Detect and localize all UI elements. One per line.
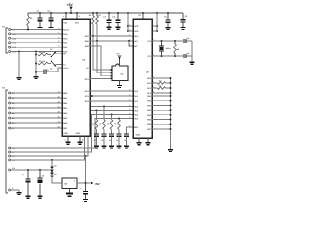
svg-text:B3: B3 [12,107,14,110]
ground below C10 [83,199,88,200]
wire K2 pin to U5 bus line 3 [11,111,133,157]
ground below C9 [38,196,43,197]
wire U3 RB6 to U5 (y=41) [90,40,133,42]
ground at x=36 [34,76,39,77]
wire U3 RC5 to U5 (y=96) [90,95,133,97]
ground below C11 [94,145,99,146]
wire stub to U5 pin AVDD [128,30,133,32]
capacitor C7 series [43,70,44,74]
ground below U5 stub1 [137,142,142,143]
svg-text:C7: C7 [47,69,49,72]
wire K1-2 to U3 PGD [11,33,62,35]
diode D4 [51,171,53,172]
svg-text:SDA: SDA [134,35,139,38]
svg-text:9: 9 [129,125,130,128]
IC U4 body [112,64,128,80]
wire x=93 down to U4 pin1 [93,36,110,70]
ground below C8 [26,196,31,197]
wire U3 RC6 to U5 (y=101) [90,100,133,102]
wire K2 pin to U5 bus line 2 [11,115,133,153]
bus vertical line with junctions [170,78,172,149]
wire +5V drop to regulator output node [85,156,87,183]
ground below C15 [124,145,129,146]
ground below C14 [117,145,122,146]
capacitor C4 [117,13,119,20]
svg-text:9: 9 [129,34,130,37]
wire tap column 1 [96,110,98,112]
svg-text:B0: B0 [12,92,14,95]
connector K2 body bracket [6,90,8,193]
svg-text:7: 7 [58,49,59,52]
capacitor C16 [183,39,184,43]
diode D3 [51,166,53,167]
wire GP1 stub [152,82,158,84]
U5 top VCC stub, pin 20 [142,13,144,19]
wire C11 to ground [96,137,98,146]
svg-text:19: 19 [82,138,84,141]
svg-text:27: 27 [58,121,60,124]
wire C16 to gnd node [187,40,192,42]
wire gnd drop x=19 [18,52,20,78]
svg-text:GND: GND [63,132,68,135]
ground below U3 stub2 [78,142,83,143]
resistor R5 [38,62,48,65]
svg-text:PGD: PGD [63,33,68,36]
svg-text:1k: 1k [107,123,109,126]
connector K2 pins lower [9,147,11,149]
ground below C3 [107,27,112,28]
wire tap column 3 [111,114,113,116]
wire tap column 2 [103,106,105,108]
svg-text:25: 25 [58,111,60,114]
svg-text:B6: B6 [12,122,14,125]
IC U5 bottom ground stub 1 [138,138,140,142]
ground below U5 stub2 [146,142,151,143]
wire K2 ground pin [11,189,19,191]
svg-text:5: 5 [58,40,59,43]
svg-text:20: 20 [138,14,140,17]
svg-text:1k: 1k [99,123,101,126]
wire +5V to rail [70,10,72,13]
IC U5 bottom ground stub 2 [147,138,149,142]
connector K2 pins upper [9,92,11,94]
capacitor C17 [183,54,184,58]
svg-text:VCAP: VCAP [63,67,69,70]
ground below C13 [109,145,114,146]
wire K1-4 to U3 [11,42,62,44]
svg-text:9: 9 [129,116,130,119]
svg-text:24: 24 [58,106,60,109]
IC U3 bottom ground stub 2 [79,136,81,142]
svg-text:PGC: PGC [12,46,17,49]
capacitor C9 [39,170,41,178]
IC U3 body [62,19,90,136]
wire GP2 stub [152,87,158,89]
ground crystal node [190,62,195,63]
svg-text:6: 6 [58,45,59,48]
svg-text:21: 21 [58,91,60,94]
svg-text:D1: D1 [50,48,52,51]
wire stub AVCC to U5 [152,25,157,27]
wire stub to U5 pin VDD [128,25,133,27]
ground below C6 [181,27,186,28]
wire K1-6 ground branch net [11,51,62,53]
svg-text:GND: GND [76,132,81,135]
ground below C4 [116,27,121,28]
wire to C7 [36,71,43,73]
resistor R9 [118,120,121,130]
connector K1 pins [9,29,11,31]
power rail wire [28,12,183,14]
power +5V arrow symbol [69,5,72,7]
regulator U2 box [62,178,77,189]
+5V output arrow [91,182,94,185]
wire C12 to ground [103,137,105,146]
svg-text:R5 10k: R5 10k [39,60,46,63]
svg-text:4MHz: 4MHz [166,47,171,50]
U3 VDD pin stub 1 [65,13,67,19]
svg-text:MCLR: MCLR [63,29,69,32]
ground at K2 ground pin [17,192,22,193]
wire K2 pin to U5 bus line 4 [11,107,133,161]
ground below C2 [49,27,54,28]
diode D1 diagonal [51,52,56,57]
wire GP3 to bus [152,92,171,94]
svg-text:GND: GND [136,133,141,136]
connector K1 body bracket [6,28,8,53]
wire crystal ground node [191,41,193,62]
svg-text:4: 4 [58,36,59,39]
svg-text:23: 23 [58,101,60,104]
svg-text:VDD: VDD [134,25,139,28]
wire C14 to ground [118,137,120,146]
wire R9 to C14 [118,129,120,133]
wire x=97 down to U4 pin2 [97,41,110,73]
wire K1-1 to U3 MCLR [11,29,62,31]
wire U5 pin stub y=46 [129,41,133,46]
resistor R8 [110,120,113,130]
capacitor C8 [27,170,29,178]
svg-text:1: 1 [63,15,64,18]
wire D4 to regulator input [52,176,62,183]
svg-text:PGC: PGC [63,37,68,40]
ground below U4 [117,85,122,86]
svg-text:C9: C9 [42,174,44,177]
resistor R7 [103,120,106,130]
wire U5 BUF pin to C15 [127,127,134,133]
svg-text:1k: 1k [114,123,116,126]
capacitor C14 [116,133,121,134]
svg-text:D3: D3 [54,164,56,167]
crystal X1 [161,41,163,45]
wire U3 RC2 to U4 pin4 [90,77,110,79]
wire C7 to U3 pin [47,68,62,72]
svg-text:9: 9 [129,112,130,115]
capacitor C15 [124,133,129,134]
svg-text:B1: B1 [12,97,14,100]
diode D2 diagonal [51,61,56,66]
wire K2 power pin to diodes [11,169,52,171]
U3 VDD pin stub 2 [76,13,78,19]
resistor R1 (rail pullup, x=28) [27,13,29,16]
wire U3 RB5 corner down (y=46) [90,46,110,76]
ground below regulator [66,193,73,195]
capacitor C13 [109,133,114,134]
wire C13 to ground [111,137,113,146]
svg-text:2: 2 [58,27,59,30]
capacitor C1 [39,13,41,17]
wire GP0 to bus [152,77,171,79]
svg-text:R2: R2 [89,14,91,17]
resistor R10 across crystal [174,41,176,44]
capacitor C5 [167,13,169,19]
svg-text:PGD: PGD [12,42,17,45]
svg-text:9: 9 [129,39,130,42]
connector K2 ground pin [9,189,11,191]
wire U3 RB7 to U5 (y=36) [90,35,133,37]
svg-text:8: 8 [65,138,66,141]
wire R6 to C11 [96,129,98,133]
wire XTAL2 [152,55,183,57]
wire rail drop x=157 AVCC [156,13,158,31]
IC U3 bottom ground stub 1 [67,136,69,142]
wire C17 to gnd node [187,55,192,57]
svg-text:B7: B7 [12,127,14,130]
wire C15 to ground [126,137,128,146]
wire K1-3 to U3 PGC [11,37,62,39]
IC U4 pin pads [110,69,112,71]
svg-text:26: 26 [58,116,60,119]
svg-text:9: 9 [129,44,130,47]
svg-text:3: 3 [58,31,59,34]
wire XTAL1 [152,40,183,42]
resistor R11 [158,82,166,85]
wire branch down to diode input [51,160,53,166]
wire rail drop to U5 VCC pins [127,13,129,31]
capacitor C11 [94,133,99,134]
svg-text:+5V: +5V [94,182,99,186]
svg-text:9: 9 [129,99,130,102]
svg-text:28: 28 [58,126,60,129]
svg-text:B5: B5 [12,117,14,120]
ground below C5 [166,27,171,28]
junction dots on rail [39,12,41,14]
svg-text:9: 9 [129,24,130,27]
capacitor C12 [101,133,106,134]
ground at x=19 [17,77,22,78]
resistor R4 [38,53,48,56]
svg-text:9: 9 [129,89,130,92]
svg-text:22: 22 [58,96,60,99]
wire R7 to C12 [103,129,105,133]
ground below U3 stub1 [66,142,71,143]
svg-text:9: 9 [129,104,130,107]
svg-text:VDD: VDD [12,33,17,36]
wire regulator output to +5V [77,182,91,184]
wire tap column 4 [118,118,120,120]
svg-text:D2: D2 [50,68,52,71]
svg-text:GND: GND [12,37,17,40]
IC U4 ground stub [119,81,121,85]
ground below C1 [38,27,43,28]
svg-text:1k: 1k [92,123,94,126]
capacitor C2 [50,13,52,17]
regulator ground stub [69,189,71,193]
capacitor C3 [108,13,110,20]
svg-text:R4 10k: R4 10k [39,51,46,54]
wires U5 port B to bus [152,95,171,97]
svg-text:9: 9 [129,94,130,97]
wires K2 upper pins to U3 port pins [11,92,62,94]
capacitor C6 at rail end [182,13,184,19]
capacitor C10 [85,183,87,191]
wire U3 RC4 to U5 (y=91) [90,90,133,92]
svg-text:9: 9 [129,29,130,32]
resistor R12 [158,87,166,90]
svg-text:B2: B2 [12,102,14,105]
wire R8 to C13 [111,129,113,133]
wire drop x=36 to RC cluster [35,52,37,77]
svg-text:AVD: AVD [134,30,139,33]
connector K2 power pin [9,169,11,171]
ground below C12 [102,145,107,146]
wire K1-5 to U3 [11,46,62,48]
resistor R6 [95,120,98,130]
svg-text:3: 3 [79,15,80,18]
svg-text:9: 9 [129,108,130,111]
wire K2 pin to U5 bus line 1 [11,119,133,149]
ground below bus [168,149,173,150]
IC U5 body [133,19,152,138]
